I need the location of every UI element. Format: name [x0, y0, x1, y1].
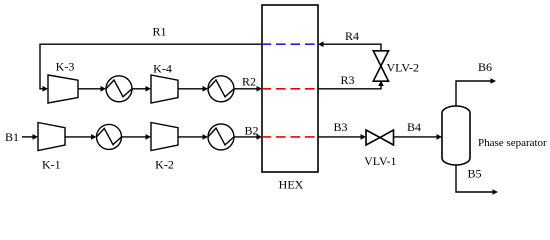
arrow into heat exchanger B [203, 86, 209, 92]
svg-text:B5: B5 [467, 167, 481, 181]
wire B6 vapour outlet [456, 81, 491, 106]
svg-text:K-3: K-3 [56, 60, 75, 74]
phase separator vessel [442, 106, 470, 165]
arrow into K-3 [43, 86, 49, 92]
svg-text:HEX: HEX [279, 178, 304, 192]
heat exchanger A zigzag [106, 80, 132, 97]
arrow into K-1 [33, 134, 39, 140]
arrow into heat exchanger D [203, 134, 209, 140]
blue dashed pass R1-R4 [262, 43, 318, 45]
compressor K-2 [151, 123, 178, 151]
wire B2 heat exchanger D to HEX [234, 136, 257, 138]
arrow R2 into HEX [257, 86, 263, 92]
wire R1 recycle line from HEX left to K-3 inlet [40, 44, 262, 89]
wire B4 from VLV-1 to separator [394, 136, 438, 138]
compressor K-4 [151, 75, 178, 103]
wire heat exchanger C to K-2 [122, 136, 147, 138]
svg-text:Phase separator: Phase separator [478, 137, 547, 149]
heat exchanger B circle [208, 76, 234, 102]
arrow into VLV-1 [361, 134, 367, 140]
svg-text:B6: B6 [478, 60, 492, 74]
arrow B4 into separator [437, 134, 443, 140]
arrow R4 into HEX right side [318, 41, 324, 47]
svg-text:B4: B4 [407, 120, 421, 134]
heat exchanger B zigzag [208, 80, 234, 97]
svg-text:R4: R4 [345, 29, 359, 43]
wire K-4 outlet to heat exchanger B [178, 88, 203, 90]
heat exchanger D zigzag [208, 128, 234, 145]
arrow B2 into HEX [257, 134, 263, 140]
compressor K-1 [38, 123, 65, 151]
svg-text:R1: R1 [152, 25, 166, 39]
wire K-3 outlet to heat exchanger A [78, 88, 101, 90]
wire heat exchanger A to K-4 [132, 88, 146, 90]
arrow up into VLV-2 [378, 81, 384, 87]
arrow into heat exchanger A [101, 86, 107, 92]
arrow B5 [493, 189, 499, 195]
wire R2 heat exchanger B to HEX [234, 88, 257, 90]
arrow into heat exchanger C [91, 134, 97, 140]
heat exchanger D circle [208, 124, 234, 150]
svg-text:B2: B2 [244, 124, 258, 138]
arrow into K-4 [146, 86, 152, 92]
valve VLV-1 right triangle [380, 130, 394, 145]
heat exchanger C circle [97, 124, 122, 149]
svg-text:K-4: K-4 [153, 62, 172, 76]
wire B1 feed [22, 136, 33, 138]
valve VLV-2 lower triangle [373, 66, 388, 81]
arrow into K-2 [146, 134, 152, 140]
svg-text:K-2: K-2 [155, 158, 174, 172]
red dashed pass R2-R3 [262, 88, 318, 90]
svg-text:K-1: K-1 [42, 158, 61, 172]
arrow B6 [491, 78, 497, 84]
svg-text:VLV-1: VLV-1 [364, 154, 396, 168]
wire B3 from HEX to VLV-1 [318, 136, 361, 138]
svg-text:R2: R2 [242, 75, 256, 89]
valve VLV-2 upper triangle [373, 51, 388, 66]
valve VLV-1 left triangle [366, 130, 380, 145]
svg-text:VLV-2: VLV-2 [387, 61, 419, 75]
wire B5 liquid outlet [456, 165, 493, 192]
svg-text:B3: B3 [333, 120, 347, 134]
wire R4 from VLV-2 top to HEX [323, 44, 381, 51]
compressor K-3 [48, 75, 78, 103]
red dashed pass B2-B3 [262, 136, 318, 138]
wire K-1 outlet to heat exchanger C [65, 136, 92, 138]
svg-text:B1: B1 [5, 130, 19, 144]
svg-text:R3: R3 [340, 73, 354, 87]
HEX block [262, 5, 318, 172]
wire K-2 outlet to heat exchanger D [178, 136, 203, 138]
heat exchanger A circle [106, 76, 132, 102]
wire R3 from HEX to VLV-2 bottom [318, 86, 381, 89]
heat exchanger C zigzag [97, 128, 122, 144]
